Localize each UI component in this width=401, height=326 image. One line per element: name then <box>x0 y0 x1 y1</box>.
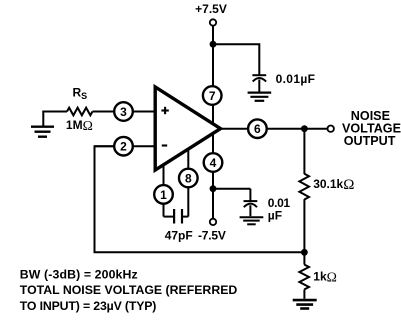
svg-text:30.1kΩ: 30.1kΩ <box>313 177 354 193</box>
pin 1 <box>154 165 173 217</box>
resistor RS 1M <box>67 108 93 116</box>
junction output <box>301 125 308 132</box>
svg-text:1kΩ: 1kΩ <box>313 269 337 284</box>
label -7.5V <box>198 229 226 243</box>
junction pin4 node <box>210 185 217 192</box>
label 1kOhm <box>313 269 337 284</box>
label NOISE VOLTAGE OUTPUT <box>342 109 401 148</box>
pin 2 <box>114 137 133 156</box>
wire to C1 <box>213 44 259 74</box>
svg-text:2: 2 <box>120 140 127 154</box>
pin 3 <box>114 102 133 121</box>
label uF <box>268 208 282 222</box>
note line 2 <box>20 283 238 297</box>
label RS <box>73 86 88 102</box>
svg-text:3: 3 <box>120 105 127 119</box>
label 0.01uF top <box>276 72 316 86</box>
wire R1 to junction <box>303 199 305 252</box>
wire feedback loop <box>95 146 305 252</box>
junction feedback <box>301 249 308 256</box>
capacitor 47pF <box>164 209 189 224</box>
pin 4 <box>204 134 223 218</box>
ground C1 <box>248 93 272 101</box>
wire pin4 to C2 <box>213 188 250 190</box>
wire output to R1 <box>303 129 305 174</box>
label 30.1kOhm <box>313 177 354 193</box>
terminal output <box>328 126 334 132</box>
terminal +7.5V <box>210 19 216 25</box>
note line 3 <box>20 299 157 313</box>
pin 6 <box>248 119 267 138</box>
label minus input <box>162 144 167 146</box>
capacitor C2 0.01uF <box>244 189 258 217</box>
label 1MOhm <box>66 118 93 133</box>
pin 7 <box>203 86 222 123</box>
label 47pF <box>165 229 193 243</box>
svg-text:47pF: 47pF <box>165 229 193 243</box>
svg-text:VOLTAGE: VOLTAGE <box>342 121 401 135</box>
svg-text:+7.5V: +7.5V <box>195 2 227 16</box>
svg-text:TOTAL NOISE VOLTAGE (REFERRED: TOTAL NOISE VOLTAGE (REFERRED <box>20 283 238 297</box>
label +7.5V <box>195 2 227 16</box>
wire RS to pin3 to opamp <box>93 111 156 113</box>
svg-text:-7.5V: -7.5V <box>198 229 226 243</box>
svg-text:4: 4 <box>210 156 217 170</box>
ground R2 <box>293 300 317 308</box>
svg-text:8: 8 <box>185 171 192 185</box>
svg-text:6: 6 <box>254 122 261 136</box>
junction supply <box>210 41 217 48</box>
ground C2 <box>240 217 264 224</box>
pin 8 <box>179 150 198 217</box>
svg-text:1MΩ: 1MΩ <box>66 118 93 133</box>
svg-text:BW (-3dB) = 200kHz: BW (-3dB) = 200kHz <box>20 268 138 282</box>
label 0.01 <box>268 196 291 210</box>
resistor R1 30.1k <box>299 174 309 200</box>
note line 1 <box>20 268 138 282</box>
terminal -7.5V <box>210 219 216 225</box>
svg-text:OUTPUT: OUTPUT <box>344 134 396 148</box>
svg-text:7: 7 <box>209 89 216 103</box>
svg-text:RS: RS <box>73 86 88 102</box>
svg-text:0.01µF: 0.01µF <box>276 72 316 86</box>
resistor R2 1k <box>299 252 309 298</box>
wire supply vertical <box>212 26 214 87</box>
capacitor C1 0.01uF <box>252 75 266 91</box>
label plus input <box>161 107 168 114</box>
svg-text:µF: µF <box>268 208 282 222</box>
ground input <box>31 112 54 137</box>
wire output <box>221 128 328 130</box>
svg-text:TO INPUT) = 23µV (TYP): TO INPUT) = 23µV (TYP) <box>20 299 157 313</box>
svg-text:1: 1 <box>160 188 167 202</box>
wire pin2 to opamp <box>95 145 156 147</box>
op-amp U1 <box>155 87 220 170</box>
wire input left <box>42 111 67 113</box>
